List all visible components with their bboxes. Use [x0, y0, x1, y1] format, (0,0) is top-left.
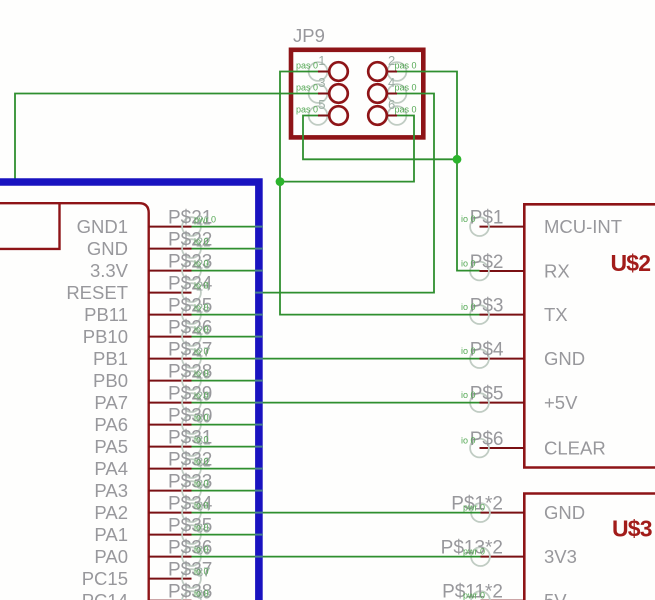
- svg-text:io 0: io 0: [194, 545, 209, 555]
- svg-text:pas 0: pas 0: [395, 105, 417, 115]
- JP9 pin 4: [368, 75, 416, 103]
- junction node A: [276, 177, 285, 186]
- pin P$30 (PA6): [94, 406, 212, 436]
- svg-text:PA6: PA6: [94, 414, 128, 435]
- svg-text:PB10: PB10: [83, 326, 128, 347]
- wire P$21 stub to board edge: [192, 226, 263, 228]
- svg-text:+5V: +5V: [544, 392, 578, 413]
- pin P$37 (PC15): [82, 560, 213, 590]
- svg-text:PB11: PB11: [84, 304, 128, 325]
- wire JP9.1 down to junction: [280, 72, 318, 182]
- svg-text:GND: GND: [544, 348, 585, 369]
- wire P$22 stub to board edge: [192, 248, 263, 250]
- IC U$3 outline: [524, 494, 655, 600]
- svg-text:3: 3: [318, 75, 325, 90]
- wire P$31 stub to board edge: [192, 446, 263, 448]
- svg-text:PA5: PA5: [94, 436, 128, 457]
- wire crossing board edge (blend): [255, 227, 263, 557]
- pin P$24 (RESET): [66, 274, 212, 304]
- svg-text:io 0: io 0: [194, 259, 209, 269]
- pin P$26 (PB10): [83, 318, 213, 348]
- svg-text:GND1: GND1: [77, 216, 128, 237]
- pin P$21 (GND1): [77, 208, 216, 238]
- svg-text:pas 0: pas 0: [296, 83, 318, 93]
- svg-text:PC14: PC14: [82, 590, 128, 600]
- svg-text:PA7: PA7: [94, 392, 128, 413]
- pin P$29 (PA7): [94, 384, 212, 414]
- wire P$26 stub to board edge: [192, 336, 263, 338]
- JP9 pin 5: [296, 97, 348, 125]
- svg-text:io 0: io 0: [461, 436, 476, 446]
- svg-text:pas 0: pas 0: [296, 105, 318, 115]
- svg-text:io 0: io 0: [194, 523, 209, 533]
- svg-text:pas 0: pas 0: [395, 61, 417, 71]
- svg-text:io 0: io 0: [194, 457, 209, 467]
- svg-text:io 0: io 0: [461, 214, 476, 224]
- svg-text:io 0: io 0: [461, 346, 476, 356]
- MCU component outline: [0, 203, 149, 600]
- svg-text:io 0: io 0: [194, 303, 209, 313]
- svg-text:io 0: io 0: [194, 347, 209, 357]
- svg-text:io 0: io 0: [194, 325, 209, 335]
- module U$1 outline (blue board edge): [0, 182, 259, 600]
- svg-text:2: 2: [388, 53, 395, 68]
- wire JP9.4 to RESET: [256, 94, 435, 293]
- svg-text:PA2: PA2: [94, 502, 128, 523]
- svg-text:RESET: RESET: [66, 282, 128, 303]
- JP9 name label: [293, 25, 325, 46]
- svg-text:GND: GND: [87, 238, 128, 259]
- wire P$34 to U$3 GND: [192, 512, 481, 514]
- U$2 pin P$3 (TX): [461, 296, 568, 326]
- svg-text:RX: RX: [544, 261, 570, 282]
- pin P$27 (PB1): [93, 340, 212, 370]
- U$2 pin P$1 (MCU-INT): [461, 208, 622, 238]
- U$2 pin P$4 (GND): [461, 340, 585, 370]
- pin P$34 (PA2): [94, 494, 212, 524]
- svg-text:pwr 0: pwr 0: [463, 547, 485, 557]
- wire P$23 stub to board edge: [192, 270, 263, 272]
- svg-text:PA0: PA0: [94, 546, 128, 567]
- svg-text:io 0: io 0: [194, 391, 209, 401]
- svg-text:pwr 0: pwr 0: [463, 591, 485, 600]
- svg-text:io 0: io 0: [194, 479, 209, 489]
- svg-text:PA1: PA1: [94, 524, 128, 545]
- JP9 pin 2: [368, 53, 416, 81]
- wire junction to U$2 TX: [280, 182, 480, 315]
- svg-text:5V: 5V: [544, 590, 567, 600]
- svg-text:pas 0: pas 0: [296, 61, 318, 71]
- U$3 pin P$13*2 (3V3): [441, 538, 577, 568]
- svg-text:io 0: io 0: [194, 589, 209, 599]
- U$2 reference label: [611, 250, 651, 276]
- JP9 pin 6: [368, 97, 416, 125]
- svg-text:pwr 0: pwr 0: [463, 503, 485, 513]
- svg-text:1: 1: [318, 53, 325, 68]
- svg-text:TX: TX: [544, 304, 568, 325]
- connector JP9 outline: [291, 50, 423, 138]
- svg-text:3.3V: 3.3V: [90, 260, 129, 281]
- svg-text:io 0: io 0: [194, 567, 209, 577]
- svg-text:U$3: U$3: [612, 516, 652, 542]
- wire P$25 stub to board edge: [192, 314, 263, 316]
- pin P$28 (PB0): [93, 362, 212, 392]
- svg-text:io 0: io 0: [194, 369, 209, 379]
- pin P$33 (PA3): [94, 472, 212, 502]
- svg-text:io 0: io 0: [461, 302, 476, 312]
- svg-text:GND: GND: [544, 502, 585, 523]
- svg-text:MCU-INT: MCU-INT: [544, 216, 622, 237]
- junction node B: [453, 155, 462, 164]
- svg-text:PA4: PA4: [94, 458, 128, 479]
- svg-text:pwr 0: pwr 0: [194, 215, 216, 225]
- pin P$23 (3.3V): [90, 252, 212, 282]
- svg-text:5: 5: [318, 97, 325, 112]
- wire JP9.5 to junction: [303, 116, 457, 160]
- svg-text:PC15: PC15: [82, 568, 128, 589]
- wire P$28 stub to board edge: [192, 380, 263, 382]
- svg-text:io 0: io 0: [194, 281, 209, 291]
- U$3 pin P$1*2 (GND): [451, 494, 585, 524]
- svg-text:pas 0: pas 0: [395, 83, 417, 93]
- svg-text:io 0: io 0: [194, 501, 209, 511]
- U$2 pin P$2 (RX): [461, 252, 570, 282]
- wire junction to U$2 RX: [457, 159, 480, 270]
- pin P$32 (PA4): [94, 450, 212, 480]
- U$2 pin P$6 (CLEAR): [461, 429, 606, 459]
- svg-text:JP9: JP9: [293, 25, 325, 46]
- svg-text:io 0: io 0: [194, 413, 209, 423]
- wire JP9.2 down to junction: [397, 72, 457, 160]
- wire P$35 stub to board edge: [192, 534, 263, 536]
- wire junction to JP9.6: [280, 116, 414, 182]
- wire P$27 to U$2 GND: [192, 358, 480, 360]
- wire P$30 stub to board edge: [192, 424, 263, 426]
- svg-text:PB1: PB1: [93, 348, 128, 369]
- pin P$38 (PC14): [82, 582, 213, 600]
- svg-text:io 0: io 0: [194, 435, 209, 445]
- wire JP9.3 to board edge: [15, 94, 318, 179]
- wire P$29 to U$2 +5V: [192, 402, 480, 404]
- wire P$33 stub to board edge: [192, 490, 263, 492]
- svg-text:CLEAR: CLEAR: [544, 438, 606, 459]
- wire P$36 to U$3 3V3: [192, 556, 481, 558]
- U$2 pin P$5 (+5V): [461, 384, 578, 414]
- svg-text:6: 6: [388, 97, 395, 112]
- U$3 reference label: [612, 516, 652, 542]
- JP9 pin 3: [296, 75, 348, 103]
- pin P$36 (PA0): [94, 538, 212, 568]
- svg-text:PB0: PB0: [93, 370, 128, 391]
- JP9 pin 1: [296, 53, 348, 81]
- svg-text:io 0: io 0: [194, 237, 209, 247]
- svg-text:io 0: io 0: [461, 390, 476, 400]
- svg-text:3V3: 3V3: [544, 546, 577, 567]
- wire P$32 stub to board edge: [192, 468, 263, 470]
- pin P$35 (PA1): [94, 516, 212, 546]
- IC U$2 outline: [524, 204, 655, 467]
- MCU outline notch: [0, 204, 60, 249]
- svg-text:U$2: U$2: [611, 250, 651, 276]
- pin P$25 (PB11): [84, 296, 212, 326]
- svg-text:io 0: io 0: [461, 259, 476, 269]
- svg-text:4: 4: [388, 75, 395, 90]
- U$3 pin P$11*2 (5V): [442, 582, 567, 600]
- svg-text:PA3: PA3: [94, 480, 128, 501]
- pin P$22 (GND): [87, 230, 213, 260]
- pin P$31 (PA5): [94, 428, 212, 458]
